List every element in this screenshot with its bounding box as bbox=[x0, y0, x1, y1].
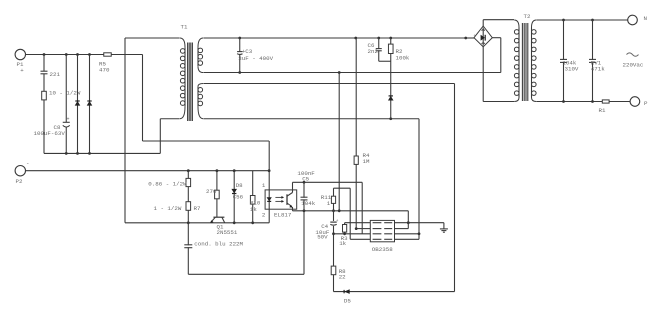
svg-text:0.86 - 1/2W: 0.86 - 1/2W bbox=[148, 181, 187, 188]
wire bridge left stub bbox=[466, 37, 474, 39]
capacitor C6 2n2 bbox=[375, 49, 382, 50]
svg-text:2: 2 bbox=[262, 212, 266, 219]
wire aux drop x339 bbox=[338, 73, 340, 211]
wire C3 branch bbox=[239, 38, 241, 73]
wire ic row2 right bbox=[395, 228, 409, 230]
svg-text:220Vac: 220Vac bbox=[623, 61, 644, 68]
varistor RV1 471k bbox=[589, 60, 597, 62]
capacitor C8 100uF-63V bbox=[65, 55, 67, 123]
wire +rail from P1 bbox=[26, 54, 143, 56]
wire cross link y141 bbox=[143, 140, 270, 142]
svg-text:-: - bbox=[26, 160, 29, 167]
junction dot sec2 bottom bbox=[389, 117, 392, 120]
junction dots on T2 bottom rail bbox=[562, 100, 565, 103]
resistor 0.86 - 1/2W bbox=[186, 178, 191, 186]
svg-text:R1: R1 bbox=[599, 107, 606, 114]
svg-text:471k: 471k bbox=[591, 66, 605, 73]
svg-text:50V: 50V bbox=[317, 234, 328, 241]
resistor R3 1k bbox=[343, 225, 347, 233]
wire ic row1 left bbox=[345, 222, 371, 224]
svg-text:104k: 104k bbox=[301, 200, 315, 207]
svg-text:270: 270 bbox=[206, 188, 217, 195]
svg-text:OB2358: OB2358 bbox=[372, 246, 393, 253]
wire sec1 bottom rail bbox=[204, 72, 501, 74]
svg-text:+C3: +C3 bbox=[242, 48, 253, 55]
wire T1 primary top feed bbox=[125, 37, 180, 39]
svg-text:2n2: 2n2 bbox=[368, 48, 379, 55]
svg-text:221: 221 bbox=[50, 71, 61, 78]
wire bridge right link bbox=[492, 37, 501, 39]
diode snubber bbox=[388, 96, 394, 101]
wire bridge top link bbox=[482, 20, 484, 26]
svg-text:2N5551: 2N5551 bbox=[217, 229, 238, 236]
ac symbol 220Vac bbox=[627, 53, 639, 56]
wire R2 branch bbox=[390, 38, 392, 119]
svg-text:3uF - 400V: 3uF - 400V bbox=[238, 55, 273, 62]
junction dot row2 bbox=[355, 227, 358, 230]
wire sec2 top drop x454 bbox=[454, 84, 456, 292]
wire bottom-left return rail bbox=[44, 152, 160, 154]
wire Q1 emitter rail bbox=[125, 222, 269, 224]
svg-text:+: + bbox=[67, 117, 70, 123]
terminal P2 bbox=[15, 166, 25, 176]
svg-text:1k: 1k bbox=[250, 206, 257, 213]
terminal N bbox=[628, 15, 638, 25]
svg-text:cond. blu 222M: cond. blu 222M bbox=[194, 241, 243, 248]
wire P2 rail bbox=[26, 170, 270, 172]
wire drain drop x419 bbox=[418, 119, 420, 240]
svg-text:D5: D5 bbox=[344, 298, 351, 305]
diode left b bbox=[89, 55, 91, 154]
svg-text:R7: R7 bbox=[194, 205, 201, 212]
wire opto emitter rail bbox=[292, 209, 294, 211]
wire Vcc sense drop x356 bbox=[355, 38, 357, 229]
ground bbox=[443, 223, 445, 229]
junction dots on return rail bbox=[65, 152, 68, 155]
junction dot C5 top bbox=[303, 181, 306, 184]
wire 270 branch bbox=[216, 171, 218, 214]
svg-text:22: 22 bbox=[339, 274, 346, 281]
junction dots on Q1 rail bbox=[187, 221, 190, 224]
resistor R8 22 bbox=[331, 266, 336, 275]
svg-text:C5: C5 bbox=[302, 176, 309, 183]
svg-text:+: + bbox=[336, 219, 339, 224]
capacitor 221 bbox=[43, 55, 45, 72]
resistor R4 1M bbox=[354, 156, 358, 164]
wire T1 primary bottom bbox=[160, 118, 179, 120]
terminal P bbox=[630, 97, 640, 107]
resistor R7 1 - 1/2W bbox=[186, 202, 191, 211]
capacitor C5 100nF 104k bbox=[300, 198, 308, 200]
wire bridge bottom link bbox=[482, 47, 484, 102]
wire ic row3 right bbox=[395, 233, 420, 235]
wire R3 bottom bbox=[344, 232, 346, 234]
svg-text:+: + bbox=[20, 67, 24, 74]
capacitor C3 3uF-400V bbox=[237, 52, 244, 54]
svg-text:EL817: EL817 bbox=[274, 212, 292, 219]
transformer T1 bbox=[180, 38, 185, 47]
wire C6 branch bbox=[378, 38, 380, 61]
junction dots on sec1 top rail bbox=[238, 37, 241, 40]
svg-text:P: P bbox=[644, 100, 648, 107]
resistor R2 100k bbox=[388, 44, 393, 53]
wire R11-C4 link bbox=[333, 203, 335, 221]
wire chain branch bbox=[187, 171, 189, 223]
resistor 10 - 1/2W bbox=[42, 91, 47, 100]
wire blue cap bottom link bbox=[188, 273, 304, 275]
capacitor C4 10uF 50V bbox=[330, 222, 337, 225]
wire ic row3 left bbox=[334, 233, 371, 235]
svg-text:T1: T1 bbox=[181, 24, 188, 31]
wire sec2 top rail bbox=[204, 83, 455, 85]
svg-text:310V: 310V bbox=[565, 66, 579, 73]
junction dot row1 right bbox=[407, 221, 410, 224]
diode D5 bbox=[344, 289, 350, 294]
ic U1 OB2358 bbox=[370, 220, 394, 241]
resistor R11 1 bbox=[331, 196, 335, 203]
svg-text:1: 1 bbox=[327, 200, 331, 207]
diode left a bbox=[77, 55, 79, 154]
wire snubber bottom rail bbox=[334, 291, 455, 293]
wire T2 top rail to N bbox=[537, 19, 628, 21]
wire T2 bottom rail to P bbox=[537, 101, 631, 103]
junction dots on P2 rail bbox=[187, 169, 190, 172]
wire D8 branch bbox=[233, 171, 235, 223]
resistor 270 bbox=[215, 190, 220, 199]
wire hv bus vertical x125 bbox=[124, 38, 126, 223]
junction node on P2 wire bbox=[268, 169, 271, 172]
svg-text:100k: 100k bbox=[396, 55, 410, 62]
svg-text:+: + bbox=[473, 34, 476, 39]
terminal P1 bbox=[15, 49, 25, 59]
junction dots on +rail bbox=[43, 53, 46, 56]
wire sec1 top rail bbox=[204, 37, 466, 39]
wire ic row1 right to ground bbox=[395, 222, 444, 224]
wire C5 branch bbox=[303, 182, 305, 211]
junction dots on sec1 bottom rail bbox=[238, 71, 241, 74]
wire C4 bottom bbox=[333, 226, 335, 234]
wire sec2 bottom rail bbox=[204, 118, 420, 120]
wire ic row2 left bbox=[356, 228, 370, 230]
wire blue cap branch bbox=[187, 223, 189, 274]
transformer T2 bbox=[514, 20, 519, 28]
wire R10 branch bbox=[252, 171, 254, 223]
wire primary-return link x160 bbox=[159, 119, 161, 154]
svg-text:N: N bbox=[644, 15, 648, 22]
wire R11 top bracket bbox=[333, 188, 335, 196]
diode D8 C56 bbox=[231, 189, 237, 194]
wire C4-R8 drop bbox=[333, 234, 335, 292]
capacitor cond. blu 222M bbox=[184, 245, 193, 247]
svg-text:470: 470 bbox=[99, 67, 110, 74]
svg-text:100uF-63V: 100uF-63V bbox=[34, 130, 66, 137]
svg-text:1M: 1M bbox=[363, 158, 370, 165]
svg-text:D8: D8 bbox=[236, 182, 243, 189]
svg-text:T2: T2 bbox=[524, 13, 531, 20]
svg-text:1k: 1k bbox=[339, 240, 346, 247]
svg-text:P2: P2 bbox=[16, 178, 23, 185]
junction dots row3 bbox=[332, 232, 335, 235]
wire fb drop x362 bbox=[361, 182, 363, 234]
bridge rectifier bbox=[474, 26, 492, 47]
junction dots on T2 top rail bbox=[562, 19, 565, 22]
wire filter cap branch bbox=[563, 20, 565, 102]
resistor R1 bbox=[602, 100, 609, 103]
wire opto collector bbox=[292, 182, 294, 190]
svg-text:10 - 1/2W: 10 - 1/2W bbox=[49, 89, 81, 96]
capacitor 104k 310V bbox=[560, 60, 568, 62]
junction dot row3 right bbox=[418, 232, 421, 235]
svg-text:1 - 1/2W: 1 - 1/2W bbox=[154, 205, 182, 212]
wire drop to opto anode bbox=[268, 141, 270, 223]
wire varistor branch bbox=[592, 20, 594, 102]
svg-text:1: 1 bbox=[262, 182, 266, 189]
svg-text:C56: C56 bbox=[233, 194, 244, 201]
junction dots on emitter rail bbox=[303, 209, 306, 212]
wire right edge of +rail down bbox=[142, 55, 144, 142]
transistor Q1 2N5551 bbox=[213, 216, 224, 218]
wire ic row4 right bbox=[395, 238, 420, 240]
resistor R10 1k bbox=[250, 196, 255, 205]
optocoupler U2 EL817 bbox=[265, 190, 297, 209]
resistor R5 470 bbox=[104, 53, 112, 56]
wire ic row4 left bbox=[350, 238, 370, 240]
